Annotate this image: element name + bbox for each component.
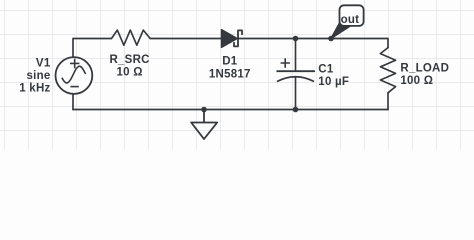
svg-text:D1: D1 (222, 55, 238, 67)
node out flag (331, 5, 364, 38)
diode D1 (Schottky) (222, 30, 243, 48)
wire: C1 top lead (295, 39, 297, 72)
junction dot: out node (328, 36, 334, 42)
svg-text:1N5817: 1N5817 (209, 69, 251, 81)
junction dot: ground node (201, 107, 207, 113)
wire: C1 bottom lead (295, 77, 297, 110)
junction dot: C1 bottom node (293, 107, 299, 113)
wire: V1 bottom lead (72, 94, 74, 110)
svg-text:1 kHz: 1 kHz (19, 82, 50, 94)
wire: R_SRC to D1 (150, 38, 222, 40)
svg-text:R_SRC: R_SRC (109, 54, 149, 66)
svg-text:out: out (341, 14, 360, 26)
svg-text:100 Ω: 100 Ω (400, 75, 433, 87)
svg-text:10 µF: 10 µF (318, 76, 349, 88)
capacitor C1 (polarized) (277, 58, 316, 81)
junction dot: C1 top node (293, 36, 299, 42)
resistor R_LOAD (380, 48, 395, 93)
svg-text:V1: V1 (36, 58, 51, 70)
wire: R_LOAD bottom lead (387, 93, 389, 110)
svg-text:10 Ω: 10 Ω (116, 67, 142, 79)
voltage source V1 (56, 57, 93, 94)
wire: bottom rail (73, 109, 388, 111)
wire: V1 top lead and top-left corner to R_SRC (73, 39, 112, 58)
svg-text:sine: sine (26, 70, 50, 82)
ground (191, 110, 217, 140)
wire: D1 cathode to top-right corner and down to R_LOAD (238, 39, 388, 48)
svg-text:C1: C1 (318, 64, 334, 76)
resistor R_SRC (112, 30, 151, 45)
svg-text:R_LOAD: R_LOAD (400, 62, 449, 74)
